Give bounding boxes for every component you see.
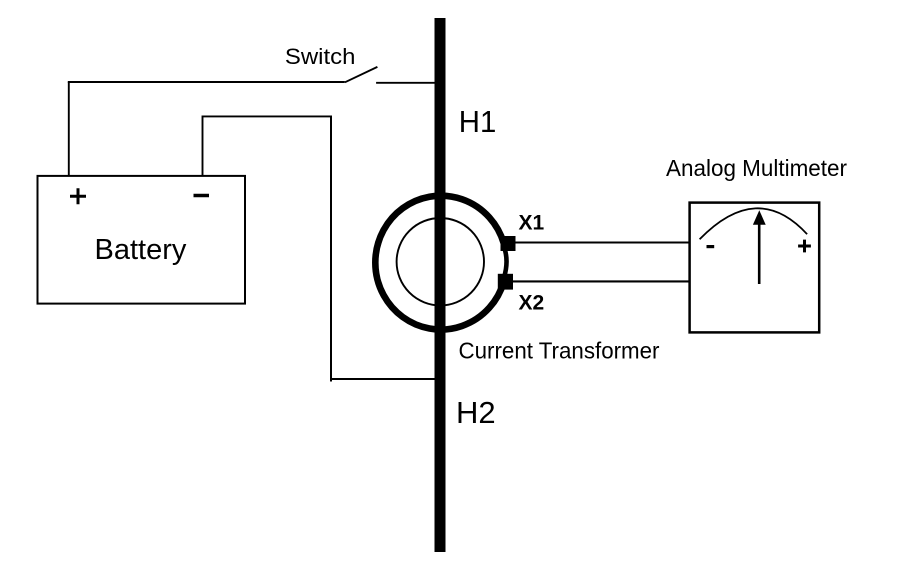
- wire: long vertical down: [330, 116, 332, 382]
- analog multimeter box: [690, 203, 820, 333]
- wire: battery - terminal vertical riser: [202, 116, 204, 177]
- battery + mark: [70, 188, 86, 204]
- svg-text:Current Transformer: Current Transformer: [459, 338, 660, 364]
- current transformer inner circle: [397, 218, 484, 305]
- svg-text:Battery: Battery: [95, 234, 187, 266]
- meter - mark: [707, 245, 715, 248]
- wire: bottom horizontal to conductor: [330, 378, 437, 380]
- terminal X2 square: [498, 274, 513, 290]
- svg-text:Analog Multimeter: Analog Multimeter: [666, 155, 847, 181]
- battery box: [38, 176, 246, 304]
- switch blade: [345, 67, 378, 82]
- meter needle arrowhead: [753, 210, 766, 225]
- wire: minus horizontal top: [203, 115, 332, 117]
- wire: battery + terminal vertical riser: [68, 82, 70, 176]
- meter + mark: [798, 240, 811, 253]
- current transformer outer ring: [375, 196, 503, 330]
- wire: X2 to meter: [512, 280, 690, 282]
- svg-text:H2: H2: [456, 395, 496, 430]
- meter scale arc: [700, 208, 808, 239]
- wire: battery + to switch horizontal: [68, 81, 345, 83]
- meter needle: [758, 222, 761, 284]
- wire: switch to conductor: [376, 82, 437, 84]
- svg-text:X2: X2: [519, 292, 545, 315]
- svg-text:X1: X1: [519, 212, 545, 235]
- svg-text:H1: H1: [459, 104, 497, 139]
- svg-text:Switch: Switch: [285, 44, 356, 69]
- battery - mark: [194, 194, 210, 198]
- terminal X1 square: [501, 236, 516, 251]
- transformer secondary arc between terminals: [504, 249, 507, 278]
- wire: X1 to meter: [514, 242, 690, 244]
- primary conductor bar H1-H2: [435, 18, 446, 552]
